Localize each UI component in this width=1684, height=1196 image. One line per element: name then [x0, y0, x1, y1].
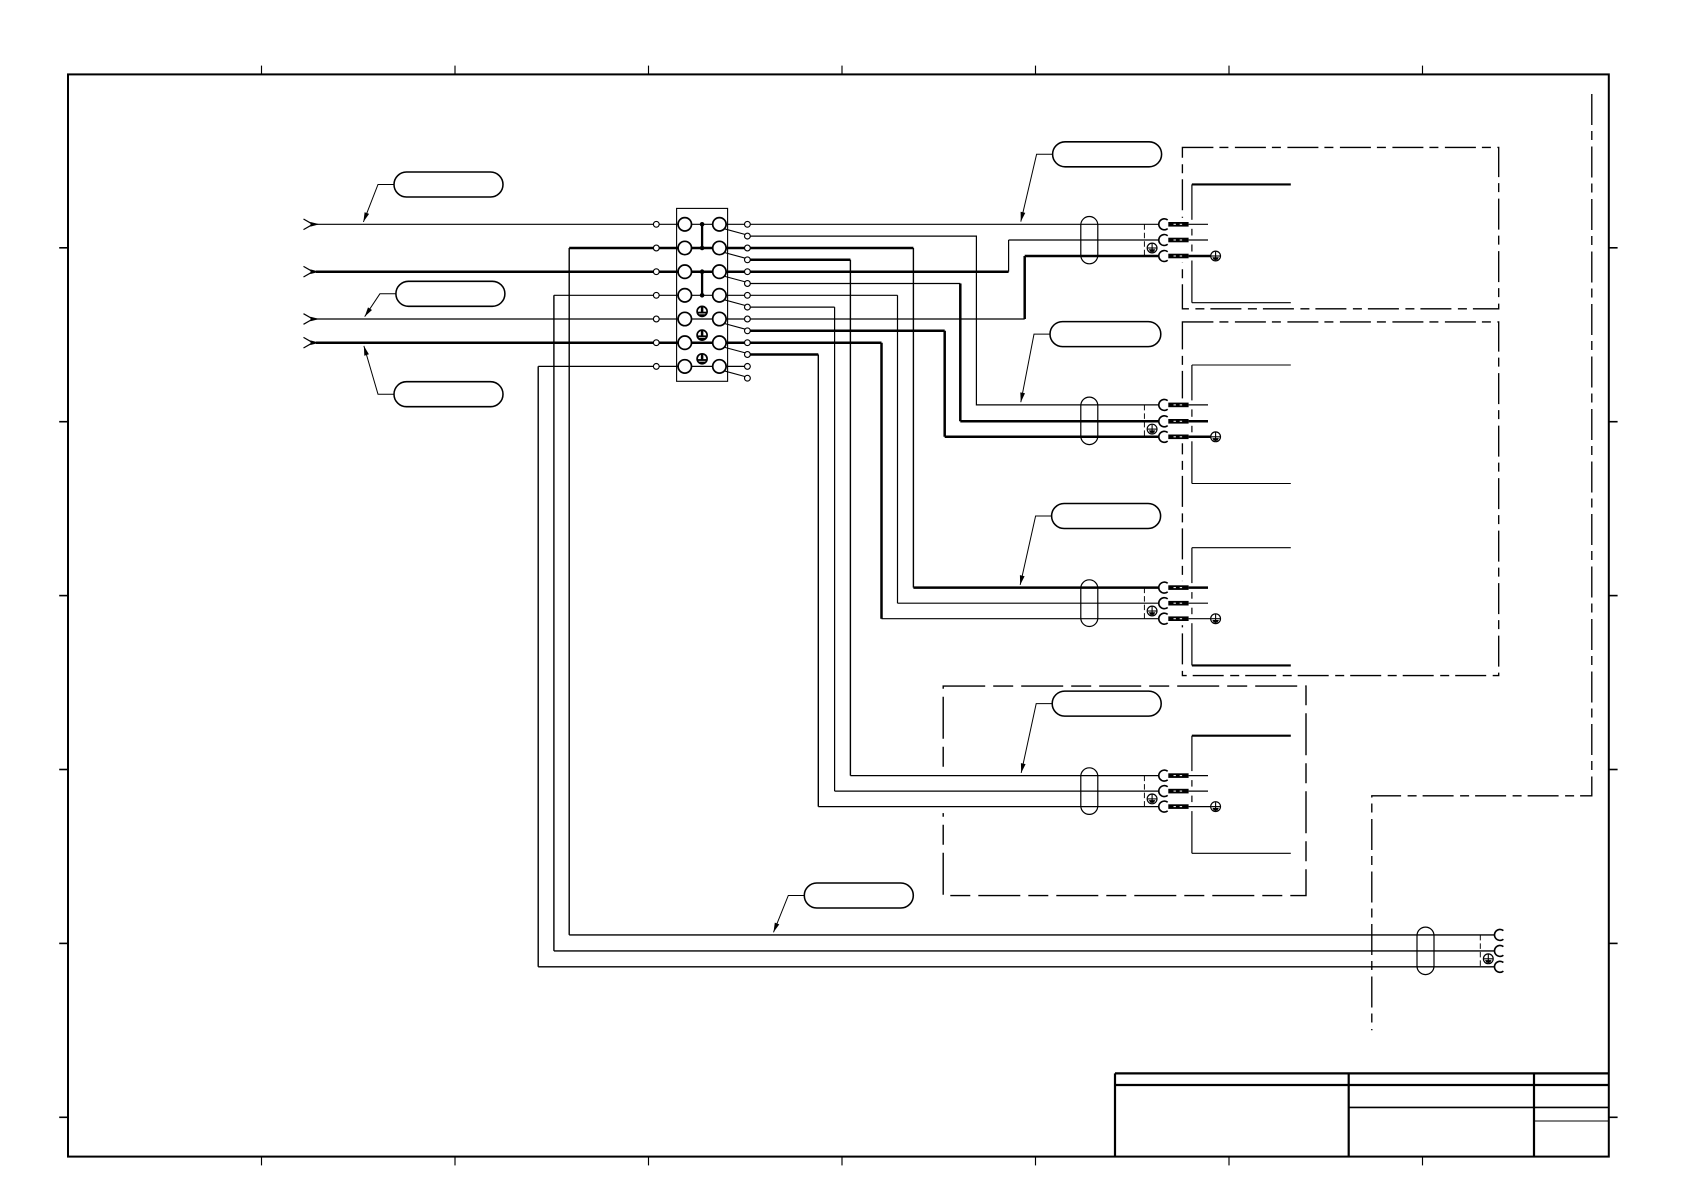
connector W1 pin contact pin1	[1168, 222, 1188, 227]
wire r1b to connector W2 pin1	[750, 236, 1159, 405]
enclosure 3 boundary (dashed)	[943, 686, 1306, 896]
connector W2 pin1 tail	[1189, 404, 1208, 406]
connector W1 socket pin1	[1159, 219, 1168, 230]
wire r6a to connector W3 pin3	[882, 618, 1160, 620]
connector W2 pin3 tail to earth	[1189, 436, 1211, 439]
cable W5 end socket pin2	[1494, 945, 1503, 956]
connector W1 pin3 tail to earth	[1189, 255, 1211, 258]
cable shield cable W5 end	[1417, 927, 1434, 975]
connector W1 pin contact pin3	[1168, 254, 1188, 259]
input arrow row 5	[304, 314, 313, 319]
wire r3b horizontal	[750, 283, 960, 285]
wire r2a horizontal	[750, 247, 913, 250]
callout label cable W1	[1053, 142, 1162, 167]
wire r4a to connector W3 pin2	[898, 602, 1160, 604]
connector W3 pin contact pin3	[1168, 616, 1188, 621]
terminal block earth symbol row 5	[697, 306, 707, 316]
remote boundary phantom line	[1372, 94, 1592, 1030]
callout label cable input 1	[394, 172, 503, 197]
cable shield connector W3	[1081, 580, 1098, 627]
wire row 7 stub	[538, 365, 653, 367]
connector W4 chassis earth symbol	[1211, 802, 1221, 812]
wire input row 5	[316, 318, 653, 320]
wire r6b riser	[817, 355, 819, 807]
wire r4a horizontal	[750, 294, 897, 296]
cable shield connector W2	[1081, 397, 1098, 445]
connector W3 shield earth symbol	[1147, 606, 1157, 616]
input arrow row 3	[304, 266, 313, 271]
connector W3 socket pin2	[1159, 598, 1168, 609]
wire r2a riser	[912, 248, 914, 588]
input arrow row 1	[304, 219, 313, 224]
wire r2b horizontal	[750, 259, 850, 262]
terminal TB1 row 6	[653, 340, 659, 346]
wire r5a riser	[1023, 256, 1026, 319]
device outline box 3	[1191, 548, 1193, 583]
wire r3b riser	[959, 284, 962, 422]
wire r1a to connector W1 pin1	[750, 223, 1159, 225]
connector W3 pin contact pin2	[1168, 601, 1188, 606]
enclosure 1 boundary (phantom)	[1182, 147, 1498, 308]
connector W4 socket pin2	[1159, 786, 1168, 797]
connector W4 socket pin3	[1159, 801, 1168, 812]
connector W1 socket pin2	[1159, 235, 1168, 246]
callout label cable W2	[1050, 322, 1161, 347]
connector W3 boundary dashed line	[1143, 588, 1145, 619]
device outline box 1	[1191, 184, 1193, 219]
cable W5 end shield earth symbol	[1483, 954, 1493, 964]
wire r4b riser	[834, 307, 836, 791]
connector W2 pin contact pin3	[1168, 435, 1188, 440]
wire r4b horizontal	[750, 306, 834, 308]
callout label cable input 3	[394, 382, 503, 407]
connector W3 socket pin1	[1159, 582, 1168, 593]
wire r2a to connector W3 pin1	[913, 586, 1159, 589]
connector W1 pin contact pin2	[1168, 238, 1188, 243]
wire r6a horizontal	[750, 341, 881, 344]
cable W5 end socket pin1	[1494, 929, 1503, 940]
connector W4 shield earth symbol	[1147, 794, 1157, 804]
connector W4 pin3 tail to earth	[1189, 806, 1211, 808]
wire r5b riser	[943, 331, 946, 437]
terminal TB1 row 4	[653, 292, 659, 298]
wire r4b to connector W4 pin2	[835, 790, 1160, 792]
terminal TB1 row 2	[653, 245, 659, 251]
input arrow row 6	[304, 337, 313, 342]
wire r3b to connector W2 pin2	[960, 420, 1159, 423]
wire row 7 riser	[537, 366, 539, 966]
cable shield connector W4	[1081, 768, 1098, 815]
wire row 4 stub	[554, 294, 654, 296]
cable W5 end boundary dashed line	[1479, 935, 1481, 967]
connector W1 pin1 tail	[1189, 223, 1208, 225]
callout label cable W4	[1052, 691, 1161, 716]
wire input row 6	[316, 341, 653, 344]
connector W4 pin contact pin1	[1168, 773, 1188, 778]
enclosure 2 boundary (phantom)	[1182, 322, 1498, 676]
connector W2 pin contact pin2	[1168, 419, 1188, 424]
wire row 2 riser	[568, 248, 570, 935]
terminal TB1 row 3	[653, 269, 659, 275]
connector W2 socket pin1	[1159, 399, 1168, 410]
enclosure 3 edge wire gap	[941, 769, 945, 813]
terminal TB1 row 5	[653, 316, 659, 322]
jumper link rows 1-2	[701, 224, 703, 248]
connector W1 chassis earth symbol	[1211, 251, 1221, 261]
device outline box 4	[1191, 736, 1193, 771]
connector W2 shield earth symbol	[1147, 424, 1157, 434]
wire r3a riser	[1008, 240, 1010, 272]
connector W4 pin contact pin2	[1168, 789, 1188, 794]
device outline box 2	[1191, 365, 1193, 400]
connector W2 pin2 tail	[1189, 420, 1208, 423]
connector W2 boundary dashed line	[1143, 405, 1145, 437]
connector W2 pin contact pin1	[1168, 403, 1188, 408]
connector W1 pin2 tail	[1189, 239, 1208, 241]
connector W3 pin3 tail to earth	[1189, 618, 1211, 620]
wire r6a riser	[880, 343, 883, 619]
connector W1 boundary dashed line	[1143, 224, 1145, 256]
callout label cable W3	[1052, 504, 1161, 529]
cable W5 end socket pin3	[1494, 961, 1503, 972]
title block	[1114, 1073, 1116, 1156]
wire input row 1	[316, 223, 653, 225]
connector W3 chassis earth symbol	[1211, 614, 1221, 624]
wire r5a to connector W1 pin3	[1025, 255, 1159, 258]
wire row 4 riser	[553, 295, 555, 951]
callout label cable W5	[804, 883, 913, 908]
connector W2 socket pin3	[1159, 431, 1168, 442]
connector W4 socket pin1	[1159, 770, 1168, 781]
wire r6b horizontal	[750, 353, 818, 356]
connector W4 pin2 tail	[1189, 790, 1208, 792]
wire r4a riser	[897, 295, 899, 603]
terminal TB1 row 7	[653, 364, 659, 370]
connector W2 chassis earth symbol	[1211, 432, 1221, 442]
wire r6b to connector W4 pin3	[818, 806, 1159, 808]
connector W2 socket pin2	[1159, 416, 1168, 427]
wire bottom run 3	[538, 966, 1494, 968]
wire row 2 stub	[569, 247, 653, 250]
enclosure 2 edge wire gap C2	[1180, 398, 1184, 443]
wire r5b horizontal	[750, 330, 944, 333]
terminal block earth symbol row 6	[697, 330, 707, 340]
wire r5b to connector W2 pin3	[945, 436, 1159, 439]
terminal block TB1 outline	[677, 208, 728, 381]
connector W3 pin2 tail	[1189, 602, 1208, 604]
wire bottom run 2	[554, 950, 1495, 952]
connector W1 shield earth symbol	[1147, 243, 1157, 253]
wire r3a horizontal	[750, 270, 1008, 273]
callout label cable input 2	[396, 281, 505, 306]
jumper link rows 3-4	[701, 272, 703, 296]
connector W3 pin contact pin1	[1168, 585, 1188, 590]
frame zone tick marks	[261, 66, 263, 75]
wire r5a horizontal	[750, 318, 1024, 320]
connector W3 socket pin3	[1159, 613, 1168, 624]
wire r2b riser	[849, 260, 851, 776]
connector W4 pin1 tail	[1189, 775, 1208, 777]
wire bottom run 1	[569, 934, 1494, 936]
connector W4 boundary dashed line	[1143, 776, 1145, 807]
enclosure 2 edge wire gap C3	[1180, 581, 1184, 625]
wire r2b to connector W4 pin1	[850, 775, 1159, 777]
terminal block earth symbol row 7	[697, 354, 707, 364]
connector W4 pin contact pin3	[1168, 804, 1188, 809]
wire input row 3	[316, 270, 653, 273]
connector W3 pin1 tail	[1189, 586, 1208, 589]
wire r3a to connector W1 pin2	[1009, 239, 1160, 241]
terminal TB1 row 1	[653, 221, 659, 227]
enclosure 1 edge wire gap	[1180, 218, 1184, 263]
cable shield connector W1	[1081, 217, 1098, 264]
connector W1 socket pin3	[1159, 251, 1168, 262]
